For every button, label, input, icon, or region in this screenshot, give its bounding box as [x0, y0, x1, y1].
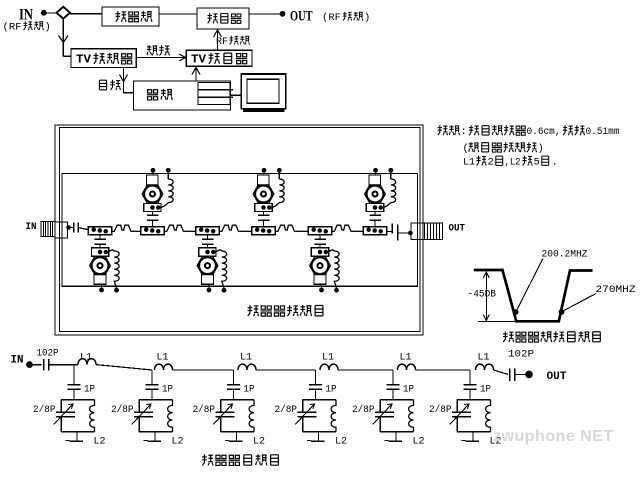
notes line 2: best use silver plated wire [463, 142, 544, 155]
wire dot to splitter [46, 12, 57, 14]
ground section 6 [462, 432, 480, 442]
wire L1 to node 3 [173, 369, 234, 371]
top resonator 3: trimmer cap and coil [365, 168, 396, 227]
capacitor input coupling [74, 223, 89, 233]
wire mixer to OUT dot [249, 13, 281, 15]
svg-text:L1: L1 [240, 352, 252, 363]
node before output connector [408, 231, 413, 236]
ground section 1 [66, 432, 84, 442]
svg-text:2/8P: 2/8P [352, 404, 375, 416]
ground section 3 [225, 432, 243, 442]
svg-text:(RF: (RF [3, 22, 22, 34]
top resonator 1: trimmer cap and coil [142, 168, 173, 227]
coupling coil between node 5 and node 6 [332, 225, 364, 231]
tank circuit section 4: trimmer 2/8P parallel L2 [295, 400, 336, 432]
arrow TV demod to TV modulator [136, 54, 185, 61]
ground section 5 [385, 432, 403, 442]
dB arrow vertical double-headed [483, 272, 489, 321]
svg-text:L1: L1 [400, 352, 412, 363]
svg-text:zwuphone NET: zwuphone NET [493, 428, 614, 445]
arrow TV demod down to computer [120, 68, 134, 93]
coupling coil between node 3 and node 4 [219, 225, 252, 231]
tank circuit section 3: trimmer 2/8P parallel L2 [213, 400, 254, 432]
terminal strip node 3 [196, 227, 219, 235]
input node dot [26, 361, 33, 368]
coupling coil between node 4 and node 5 [275, 225, 308, 231]
svg-text:200.2MHZ: 200.2MHZ [542, 249, 588, 261]
label video [99, 80, 106, 90]
capacitor 102P input [44, 359, 49, 371]
svg-text:OUT: OUT [290, 9, 313, 25]
svg-text:OUT: OUT [547, 371, 567, 383]
svg-text:0.51mm: 0.51mm [586, 126, 620, 138]
node output dot [280, 11, 286, 17]
terminal strip node 1 [88, 227, 111, 235]
bottom resonator 2: trimmer cap and coil [197, 235, 227, 293]
capacitor 1P section 1 [68, 365, 81, 400]
coupling coil between node 2 and node 3 [164, 225, 196, 231]
splitter diamond [57, 7, 71, 19]
inductor L1 section 3 [238, 364, 256, 370]
wire L1 to node 2 (sloped) [96, 365, 152, 370]
wire L1 to node 6 [416, 369, 471, 371]
box TV demodulator [71, 49, 136, 68]
tank circuit section 2: trimmer 2/8P parallel L2 [132, 400, 173, 432]
svg-text:IN: IN [11, 355, 24, 367]
ground section 4 [307, 432, 325, 442]
label (RF signal) under IN [3, 21, 51, 33]
inductor L1 section 1 [78, 359, 96, 365]
capacitor output coupling [392, 224, 409, 241]
svg-text:-45DB: -45DB [468, 289, 497, 301]
svg-text:.: . [552, 156, 558, 168]
tank circuit section 5: trimmer 2/8P parallel L2 [373, 400, 414, 432]
box computer [134, 81, 231, 110]
svg-text:): ) [538, 143, 544, 155]
svg-text:L2: L2 [335, 436, 347, 447]
svg-text:L1: L1 [463, 156, 475, 168]
box mixer [197, 8, 249, 29]
inductor L1 section 4 [320, 364, 338, 370]
svg-text:L1: L1 [157, 352, 169, 363]
terminal strip node 2 [141, 227, 164, 235]
svg-text:270MHZ: 270MHZ [596, 284, 636, 296]
capacitor 1P section 5 [387, 370, 400, 400]
inductor L1 section 2 [155, 364, 173, 370]
svg-text:L1: L1 [478, 352, 490, 363]
label RF signal to mixer [216, 36, 249, 48]
svg-text:L2: L2 [172, 436, 184, 447]
notes line 1: coil inner diameter 0.6cm wire 0.51mm [438, 125, 620, 138]
terminal strip node 4 [252, 227, 275, 235]
svg-text:L2: L2 [413, 436, 425, 447]
capacitor 1P section 2 [146, 370, 159, 400]
baseline under notch [478, 320, 516, 322]
svg-text:0.6cm,: 0.6cm, [527, 126, 561, 138]
svg-text:): ) [364, 12, 370, 24]
bottom resonator 3: trimmer cap and coil [310, 235, 340, 293]
notes line 3: L1 2 turns L2 5 turns [463, 156, 558, 169]
structure diagram outer case (double border) [55, 125, 423, 335]
svg-text:2: 2 [488, 156, 494, 168]
caption frequency characteristic [503, 331, 514, 342]
svg-text:2/8P: 2/8P [429, 404, 452, 416]
wire 102P to node 1 [49, 364, 78, 366]
box TV modulator [186, 50, 252, 66]
inductor L1 section 5 [398, 364, 416, 370]
capacitor 102P output [510, 369, 526, 381]
box notch filter [102, 7, 159, 26]
wire L1 to output cap (sloped) [494, 370, 509, 374]
svg-text:2/8P: 2/8P [33, 404, 56, 416]
svg-text::: : [461, 126, 467, 138]
node after input connector [66, 225, 71, 230]
capacitor 1P section 4 [309, 370, 322, 400]
tank circuit section 1: trimmer 2/8P parallel L2 [54, 400, 95, 432]
svg-text:L2: L2 [253, 436, 265, 447]
svg-text:1P: 1P [480, 385, 491, 396]
svg-text:2/8P: 2/8P [193, 404, 216, 416]
capacitor 1P section 6 [464, 370, 477, 400]
svg-text:): ) [45, 22, 51, 34]
svg-text:2/8P: 2/8P [275, 404, 298, 416]
svg-text:1P: 1P [84, 385, 95, 396]
wire to 102P cap [32, 364, 42, 366]
svg-text:1P: 1P [162, 385, 173, 396]
node input junction dot [41, 10, 47, 16]
node dot left notch corner [513, 309, 519, 315]
terminal strip node 6 [363, 227, 386, 235]
wire computer to monitor [231, 94, 242, 96]
label 270MHZ with leader [563, 284, 636, 311]
wire strip6 to output cap [387, 231, 392, 233]
terminal strip node 5 [308, 227, 331, 235]
coupling coil between node 1 and node 2 [112, 225, 141, 231]
structure diagram inner cavity rect [62, 174, 418, 287]
bottom resonator 1: trimmer cap and coil [90, 235, 120, 293]
computer drive bay [198, 83, 233, 105]
svg-text:(RF: (RF [322, 12, 341, 24]
svg-text:,L2: ,L2 [505, 156, 521, 168]
label 200.2MHZ with leader [517, 249, 588, 311]
svg-text:L2: L2 [94, 436, 106, 447]
node dot right notch corner [559, 309, 565, 315]
svg-text:TV: TV [191, 54, 206, 67]
svg-text:5: 5 [534, 156, 540, 168]
output node dot [525, 371, 533, 379]
wire L1 to node 4 [256, 369, 316, 371]
svg-text:TV: TV [76, 54, 91, 67]
svg-text:1P: 1P [244, 385, 255, 396]
wire to input coupling cap [69, 227, 74, 229]
arrow computer up to TV modulator [192, 68, 200, 82]
inductor L1 section 6 [476, 364, 494, 370]
wire L1 to node 5 [338, 369, 393, 371]
arrow TV modulator up to mixer [214, 30, 222, 50]
svg-text:1P: 1P [403, 385, 414, 396]
output coax connector [411, 223, 443, 240]
label (RF signal) after OUT [322, 12, 370, 24]
svg-text:102P: 102P [37, 349, 59, 360]
capacitor 1P section 3 [227, 370, 240, 400]
label audio [147, 45, 157, 55]
svg-text:102P: 102P [508, 350, 534, 361]
svg-text:OUT: OUT [449, 223, 466, 235]
tank circuit section 6: trimmer 2/8P parallel L2 [450, 400, 491, 432]
svg-text:1P: 1P [326, 385, 337, 396]
ground section 2 [144, 432, 162, 442]
input coax connector [41, 222, 68, 239]
frequency response notch curve [474, 270, 593, 321]
svg-text:IN: IN [26, 221, 37, 233]
wire notch box to mixer box [159, 13, 197, 15]
monitor icon [241, 74, 285, 111]
svg-text:L1: L1 [80, 352, 92, 363]
top resonator 2: trimmer cap and coil [253, 168, 284, 227]
caption structure diagram [248, 305, 259, 316]
svg-text:(: ( [463, 143, 469, 155]
svg-text:2/8P: 2/8P [111, 404, 134, 416]
svg-text:L1: L1 [322, 352, 334, 363]
wire splitter to notch filter box [70, 13, 102, 15]
caption schematic diagram [202, 454, 213, 465]
wire splitter down to TV demodulator with arrow [59, 19, 72, 57]
